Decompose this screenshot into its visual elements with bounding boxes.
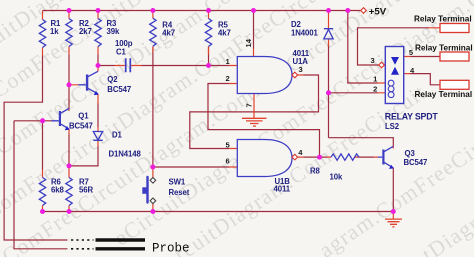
svg-text:4k7: 4k7 bbox=[218, 29, 231, 38]
svg-text:Reset: Reset bbox=[169, 188, 190, 197]
svg-text:R8: R8 bbox=[310, 166, 321, 175]
svg-text:7: 7 bbox=[245, 103, 254, 107]
svg-text:10k: 10k bbox=[330, 172, 343, 181]
svg-text:4k7: 4k7 bbox=[162, 29, 175, 38]
svg-text:56R: 56R bbox=[79, 185, 93, 194]
svg-text:1k: 1k bbox=[50, 27, 59, 36]
svg-text:+5V: +5V bbox=[369, 6, 387, 17]
svg-text:39k: 39k bbox=[107, 27, 120, 36]
svg-text:3: 3 bbox=[371, 56, 375, 65]
svg-text:BC547: BC547 bbox=[404, 158, 428, 167]
svg-text:Q1: Q1 bbox=[78, 112, 89, 121]
svg-text:Probe: Probe bbox=[152, 241, 190, 255]
svg-text:4011: 4011 bbox=[274, 184, 291, 193]
svg-text:2: 2 bbox=[373, 84, 377, 93]
svg-text:3: 3 bbox=[299, 65, 303, 74]
svg-text:Relay Terminal: Relay Terminal bbox=[415, 44, 473, 53]
svg-text:2: 2 bbox=[226, 74, 230, 83]
svg-text:Relay Terminal: Relay Terminal bbox=[414, 15, 472, 24]
svg-text:C1: C1 bbox=[116, 47, 127, 56]
svg-text:LS2: LS2 bbox=[385, 122, 400, 131]
svg-text:Q2: Q2 bbox=[107, 75, 118, 84]
svg-text:D1N4148: D1N4148 bbox=[109, 150, 142, 159]
svg-text:6: 6 bbox=[226, 157, 230, 166]
svg-text:6k8: 6k8 bbox=[51, 185, 64, 194]
svg-text:BC547: BC547 bbox=[107, 85, 131, 94]
svg-text:14: 14 bbox=[244, 38, 253, 47]
svg-text:BC547: BC547 bbox=[69, 122, 93, 131]
svg-text:D1: D1 bbox=[112, 130, 123, 139]
svg-text:2k7: 2k7 bbox=[79, 27, 92, 36]
svg-text:Relay Terminal: Relay Terminal bbox=[415, 90, 473, 99]
svg-text:1N4001: 1N4001 bbox=[291, 29, 318, 38]
svg-text:Q3: Q3 bbox=[405, 149, 416, 158]
svg-text:D2: D2 bbox=[291, 20, 302, 29]
svg-text:SW1: SW1 bbox=[169, 177, 186, 186]
svg-text:RELAY SPDT: RELAY SPDT bbox=[385, 112, 439, 122]
